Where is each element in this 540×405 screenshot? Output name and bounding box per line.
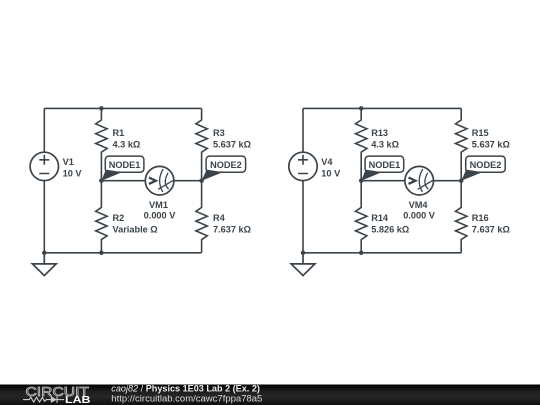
junction dot: node1 (right) bbox=[359, 178, 364, 183]
svg-text:10 V: 10 V bbox=[63, 168, 83, 178]
ground (left circuit) bbox=[32, 253, 56, 276]
svg-text:V4: V4 bbox=[321, 157, 333, 167]
svg-text:VM1: VM1 bbox=[149, 200, 168, 210]
label V4 value bbox=[321, 157, 341, 179]
svg-text:10 V: 10 V bbox=[321, 168, 341, 178]
junction dot: right bottom rail / R14 bbox=[359, 251, 364, 256]
label R1 value bbox=[113, 128, 141, 150]
CircuitLab logo: resistor-diode line bbox=[23, 396, 64, 403]
node NODE2 flag (right circuit) bbox=[461, 156, 505, 181]
wire: node1 to voltmeter VM1 bbox=[101, 180, 145, 182]
wire: left circuit top rail bbox=[44, 107, 201, 109]
resistor R4 bbox=[196, 181, 207, 253]
wire: right circuit top rail bbox=[303, 107, 461, 109]
svg-text:4.3 kΩ: 4.3 kΩ bbox=[371, 139, 399, 149]
resistor R2 bbox=[96, 181, 107, 253]
svg-text:Variable Ω: Variable Ω bbox=[113, 225, 158, 235]
resistor R3 bbox=[196, 108, 207, 180]
svg-text:0.000 V: 0.000 V bbox=[403, 211, 436, 221]
label R14 value bbox=[371, 213, 409, 235]
resistor R14 bbox=[356, 181, 367, 253]
svg-text:5.637 kΩ: 5.637 kΩ bbox=[213, 139, 251, 149]
junction dot: right bottom rail / ground bbox=[301, 251, 306, 256]
svg-text:R4: R4 bbox=[213, 213, 226, 223]
voltmeter VM4 bbox=[405, 166, 434, 195]
svg-text:4.3 kΩ: 4.3 kΩ bbox=[113, 139, 141, 149]
label V1 value bbox=[63, 157, 83, 179]
svg-text:R2: R2 bbox=[113, 213, 125, 223]
svg-text:R15: R15 bbox=[472, 128, 489, 138]
label R2 value bbox=[113, 213, 158, 235]
svg-text:R13: R13 bbox=[371, 128, 388, 138]
svg-text:5.637 kΩ: 5.637 kΩ bbox=[472, 139, 510, 149]
footer bar bbox=[0, 385, 540, 405]
node NODE1 flag (right circuit) bbox=[361, 156, 404, 181]
svg-text:NODE2: NODE2 bbox=[470, 160, 502, 170]
resistor R16 bbox=[456, 181, 467, 253]
svg-text:R3: R3 bbox=[213, 128, 225, 138]
wire: left circuit left branch (through V1) bbox=[43, 108, 45, 252]
svg-text:7.637 kΩ: 7.637 kΩ bbox=[213, 225, 251, 235]
label VM4 reading bbox=[403, 200, 436, 221]
svg-text:R1: R1 bbox=[113, 128, 125, 138]
svg-text:NODE2: NODE2 bbox=[210, 160, 242, 170]
svg-text:LAB: LAB bbox=[65, 395, 91, 405]
junction dot: left bottom rail / ground bbox=[42, 251, 47, 256]
svg-text:R14: R14 bbox=[371, 213, 389, 223]
voltmeter VM1 bbox=[145, 166, 174, 195]
resistor R13 bbox=[356, 108, 367, 180]
wire: right circuit bottom rail bbox=[303, 252, 461, 254]
svg-text:R16: R16 bbox=[472, 213, 489, 223]
node NODE2 flag (left circuit) bbox=[202, 156, 246, 181]
voltage source V4 bbox=[289, 152, 317, 180]
junction dot: right top rail / R13 bbox=[359, 106, 364, 111]
svg-text:5.826 kΩ: 5.826 kΩ bbox=[371, 225, 409, 235]
wire: node1 to voltmeter VM4 bbox=[361, 180, 405, 182]
node NODE1 flag (left circuit) bbox=[101, 156, 143, 181]
resistor R1 bbox=[96, 108, 107, 180]
svg-text:http://circuitlab.com/cawc7fpp: http://circuitlab.com/cawc7fppa78a5 bbox=[111, 394, 262, 405]
junction dot: node1 (left) bbox=[99, 178, 104, 183]
junction dot: left bottom rail / R2 bbox=[99, 251, 104, 256]
ground (right circuit) bbox=[291, 253, 315, 276]
wire: voltmeter VM1 to node2 bbox=[174, 180, 202, 182]
svg-text:NODE1: NODE1 bbox=[369, 160, 401, 170]
voltage source V1 bbox=[30, 152, 58, 180]
svg-text:0.000 V: 0.000 V bbox=[144, 211, 177, 221]
label VM1 reading bbox=[144, 200, 177, 221]
svg-text:V1: V1 bbox=[63, 157, 74, 167]
label R15 value bbox=[472, 128, 510, 150]
wire: left circuit bottom rail bbox=[44, 252, 201, 254]
svg-text:NODE1: NODE1 bbox=[109, 160, 141, 170]
label R4 value bbox=[213, 213, 251, 235]
junction dot: node2 (right) bbox=[459, 178, 464, 183]
junction dot: node2 (left) bbox=[199, 178, 204, 183]
svg-text:caoj82 / Physics 1E03 Lab 2 (E: caoj82 / Physics 1E03 Lab 2 (Ex. 2) bbox=[111, 384, 260, 394]
wire: right circuit left branch (through V4) bbox=[302, 108, 304, 252]
svg-text:VM4: VM4 bbox=[409, 200, 429, 210]
wire: voltmeter VM4 to node2 bbox=[434, 180, 462, 182]
label R13 value bbox=[371, 128, 399, 150]
label R16 value bbox=[472, 213, 510, 235]
resistor R15 bbox=[456, 108, 467, 180]
junction dot: left top rail / R1 bbox=[99, 106, 104, 111]
svg-text:7.637 kΩ: 7.637 kΩ bbox=[472, 225, 510, 235]
label R3 value bbox=[213, 128, 251, 150]
